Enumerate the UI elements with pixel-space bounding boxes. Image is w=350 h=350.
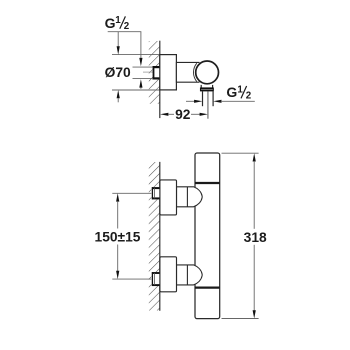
svg-text:2: 2: [246, 90, 252, 101]
svg-text:G: G: [226, 84, 237, 100]
svg-text:2: 2: [124, 21, 130, 32]
svg-text:G: G: [105, 15, 116, 31]
svg-text:318: 318: [244, 230, 267, 245]
svg-text:1: 1: [115, 15, 121, 26]
svg-text:150±15: 150±15: [95, 230, 141, 245]
svg-text:92: 92: [175, 107, 191, 122]
svg-text:Ø70: Ø70: [105, 65, 131, 80]
